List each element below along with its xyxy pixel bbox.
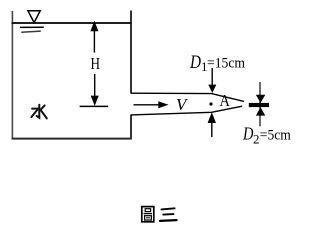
D1 dimension up arrow [208, 112, 216, 137]
svg-text:=15cm: =15cm [207, 56, 245, 72]
svg-text:H: H [91, 54, 101, 73]
label D1=15cm [189, 53, 245, 74]
nozzle top wall [131, 93, 244, 101]
water surface triangle marker [28, 11, 40, 23]
jet dimension lower arrow [256, 107, 265, 116]
pipe centerline tick [80, 105, 109, 107]
svg-text:V: V [176, 95, 189, 114]
caption 三 [160, 208, 177, 221]
svg-text:=5cm: =5cm [260, 127, 291, 143]
point A dot [209, 102, 212, 105]
jet width bar [249, 103, 269, 107]
water label 水 [31, 105, 46, 119]
water surface tick line 1 [20, 26, 44, 28]
svg-text:D: D [189, 53, 201, 73]
label D2=5cm [242, 124, 291, 147]
jet dimension upper arrow [256, 95, 265, 103]
caption 圖 [142, 207, 154, 222]
water surface line [12, 22, 132, 24]
H dimension down arrow [91, 74, 99, 106]
water surface tick line 2 [21, 31, 41, 32]
velocity arrow [134, 101, 169, 108]
H dimension up arrow [90, 21, 98, 53]
svg-text:D: D [242, 124, 254, 144]
tank bottom [12, 138, 132, 140]
tank right wall lower [130, 115, 132, 139]
nozzle bottom wall [131, 106, 242, 115]
tank right wall upper [130, 11, 132, 94]
jet dimension line [259, 82, 261, 126]
svg-text:A: A [219, 91, 230, 110]
tank left wall [11, 11, 13, 139]
D1 dimension down arrow [208, 68, 216, 93]
svg-text:2: 2 [253, 131, 260, 146]
